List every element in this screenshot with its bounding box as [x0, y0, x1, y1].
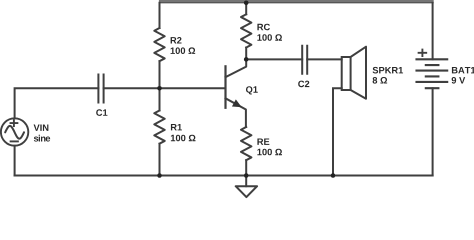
wire battery top lead [432, 3, 434, 60]
label C1 [96, 109, 107, 116]
node RE ground junction [244, 173, 249, 178]
wire battery bottom lead [432, 88, 434, 175]
label Q1 [246, 86, 258, 94]
wire top rail gray band [159, 0, 434, 2]
node base divider junction [157, 86, 162, 91]
wire collector to C2 [246, 58, 302, 60]
wire bottom rail [15, 175, 433, 177]
VIN sine symbol [5, 126, 24, 139]
label RC value [257, 24, 282, 41]
wire top rail [159, 2, 434, 4]
resistor RC [241, 14, 251, 47]
VIN plus sign [11, 120, 18, 126]
node top rail RC junction [244, 1, 249, 6]
speaker SPKR1 body [342, 57, 351, 90]
resistor R2 [154, 28, 164, 61]
capacitor C1 [98, 75, 103, 103]
wire VIN top lead [15, 88, 99, 118]
label RE value [257, 139, 282, 156]
label R1 value [171, 124, 196, 141]
wire speaker bottom lead [333, 88, 342, 175]
wire VIN bottom lead [14, 146, 16, 176]
transistor Q1 base bar [224, 66, 226, 108]
voltage source VIN circle [1, 118, 28, 145]
wire R2 top lead [159, 3, 161, 28]
battery BAT1 plates [417, 59, 448, 88]
wire RC bottom lead [245, 48, 247, 60]
transistor Q1 collector [226, 59, 247, 77]
resistor RE [241, 127, 251, 160]
label VIN sine [34, 125, 51, 142]
transistor Q1 emitter [226, 98, 246, 127]
label C2 [298, 81, 309, 88]
speaker SPKR1 cone [351, 47, 366, 99]
wire R1 bottom lead [159, 144, 161, 176]
wire R2 bottom lead [159, 61, 161, 88]
wire C1 to base [104, 87, 226, 89]
label BAT1 value [452, 67, 474, 84]
wire RE bottom lead [245, 160, 247, 175]
node speaker bottom junction [331, 173, 336, 178]
label R2 value [171, 37, 196, 54]
label SPKR1 value [373, 67, 403, 84]
wire C2 to speaker [307, 58, 342, 60]
wire RC top lead [245, 3, 247, 15]
capacitor C2 [302, 46, 307, 74]
battery BAT1 plus sign [419, 50, 427, 56]
node R1 bottom junction [157, 173, 162, 178]
wire R1 top lead [159, 88, 161, 110]
resistor R1 [154, 111, 164, 144]
ground [236, 176, 257, 198]
node collector junction [244, 57, 249, 62]
VIN minus sign [11, 140, 18, 142]
